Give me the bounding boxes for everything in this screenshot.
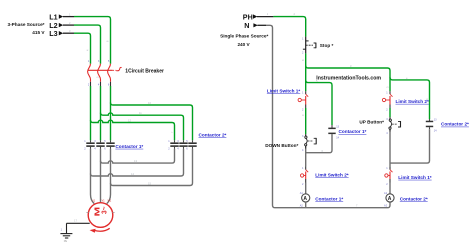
wire T-swap return 2 (KM2 pole2 to phase1) xyxy=(91,149,184,176)
wire LS1R to coil KM2 xyxy=(389,183,391,194)
wire LS2 to coil KM1 xyxy=(305,183,307,194)
circuit breaker linkage xyxy=(88,69,113,71)
svg-text:415 V: 415 V xyxy=(32,30,45,35)
circuit breaker Q1 pole 2 xyxy=(98,64,101,86)
svg-text:Limit Switch 2*: Limit Switch 2* xyxy=(396,99,430,104)
wire phase1 vertical xyxy=(90,86,92,140)
svg-text:Contactor 1*: Contactor 1* xyxy=(315,197,343,202)
svg-text:Stop *: Stop * xyxy=(320,43,334,48)
wire control main vertical xyxy=(305,53,307,91)
rotated wire number labels xyxy=(86,40,429,133)
svg-text:Contactor 2*: Contactor 2* xyxy=(441,122,469,127)
wire motor lead U xyxy=(91,149,95,204)
svg-text:PE: PE xyxy=(64,239,68,243)
wire L3 stub xyxy=(63,32,74,34)
wire PH xyxy=(273,17,305,37)
wire UP button to LS1R xyxy=(389,132,391,167)
stop button S0 (NC) xyxy=(302,37,316,55)
svg-text:A: A xyxy=(388,196,392,202)
wire T-swap return 3 (KM2 pole3 to phase3) xyxy=(111,149,193,186)
circuit breaker pin numbers xyxy=(88,60,110,86)
svg-text:Contactor 1*: Contactor 1* xyxy=(339,129,367,134)
wire branch phase3 to contactor2 xyxy=(111,103,193,141)
circuit breaker handle hook xyxy=(116,67,121,70)
contactor KM1 aux contact xyxy=(328,125,339,140)
svg-text:Single Phase Source*: Single Phase Source* xyxy=(220,33,268,38)
wire LS1 to DOWN button xyxy=(305,108,307,134)
svg-text:Contactor 2*: Contactor 2* xyxy=(400,197,428,202)
wire N xyxy=(257,24,266,26)
svg-text:Limit Switch 1*: Limit Switch 1* xyxy=(267,88,301,93)
motor rotation arrow xyxy=(90,228,110,232)
contactor KM2 pin numbers xyxy=(168,140,188,151)
circuit breaker Q1 pole 1 xyxy=(88,64,91,86)
motor M1 xyxy=(86,200,114,228)
wire L2 xyxy=(74,25,101,64)
wire phase3 vertical xyxy=(110,86,112,140)
single phase source labels xyxy=(220,12,268,46)
contactor KM1 main contact pole3 xyxy=(106,140,114,149)
contactor KM2 aux contact xyxy=(426,119,437,133)
svg-text:L3: L3 xyxy=(49,29,57,38)
ground symbol xyxy=(60,223,72,238)
source terminal arrows xyxy=(59,14,63,35)
svg-text:1Circuit Breaker: 1Circuit Breaker xyxy=(125,68,164,74)
wire motor lead V xyxy=(100,149,102,203)
svg-text:Limit Switch 1*: Limit Switch 1* xyxy=(398,175,432,180)
wire coil KM1 to rail xyxy=(305,202,307,208)
contactor KM2 main contact pole2 xyxy=(179,140,187,149)
wire L1 xyxy=(74,17,111,64)
contactor coil KM2 xyxy=(384,192,394,208)
svg-text:DOWN Button*: DOWN Button* xyxy=(265,143,298,148)
wire KM2 aux return xyxy=(390,129,430,163)
wire L1 stub xyxy=(63,16,74,18)
wire KM1 aux return xyxy=(306,136,332,153)
wire motor lead W xyxy=(107,149,111,204)
svg-text:240 V: 240 V xyxy=(237,42,250,47)
DOWN button S1 (NO) xyxy=(302,134,316,152)
contactor KM1 main contact pole1 xyxy=(86,140,94,149)
wire phase2 vertical xyxy=(100,86,102,140)
wire branch to UP column xyxy=(306,66,390,92)
svg-text:Contactor 1*: Contactor 1* xyxy=(115,144,143,149)
wire number labels xyxy=(69,12,408,222)
svg-text:Limit Switch 2*: Limit Switch 2* xyxy=(315,172,349,177)
svg-text:InstrumentationTools.com: InstrumentationTools.com xyxy=(316,76,381,82)
svg-text:N: N xyxy=(244,21,249,30)
limit switch LS1R (up column) xyxy=(385,166,393,186)
svg-text:3-Phase Source*: 3-Phase Source* xyxy=(8,22,45,27)
circuit breaker Q1 pole 3 xyxy=(108,64,111,86)
wire branch to KM1 aux xyxy=(306,80,332,125)
contactor coil KM1 xyxy=(300,192,310,208)
svg-text:Contactor 2*: Contactor 2* xyxy=(199,132,227,137)
limit switch LS1 (down column) xyxy=(298,91,308,111)
wire branch phase1 to contactor2 xyxy=(91,120,175,140)
contactor KM1 pin numbers xyxy=(84,140,106,151)
svg-text:A: A xyxy=(303,196,307,202)
3-phase source V1 labels xyxy=(8,12,58,38)
limit switch LS2 (down column) xyxy=(300,166,308,186)
wire T-swap return 1 (KM2 pole1 to phase2) xyxy=(101,149,175,163)
wire N rail xyxy=(266,25,390,207)
wire PH stub xyxy=(257,16,273,18)
wire L2 stub xyxy=(63,24,74,26)
single phase source arrows xyxy=(253,14,258,27)
wire L3 xyxy=(74,33,91,64)
contactor KM1 main contact pole2 xyxy=(96,140,104,149)
wire LS2R to UP button xyxy=(389,108,391,117)
contactor KM2 main contact pole3 xyxy=(188,140,196,149)
limit switch LS2R (up column) xyxy=(382,91,392,111)
wire motor ground xyxy=(67,222,90,224)
wire branch phase2 to contactor2 xyxy=(101,113,184,141)
wire DOWN button to LS2 xyxy=(305,149,307,167)
svg-text:UP Button*: UP Button* xyxy=(359,120,384,125)
contactor KM2 main contact pole1 xyxy=(170,140,178,149)
UP button S2 (NO) xyxy=(386,117,400,135)
svg-text:3~: 3~ xyxy=(100,207,109,215)
wire branch to KM2 aux xyxy=(390,77,430,119)
